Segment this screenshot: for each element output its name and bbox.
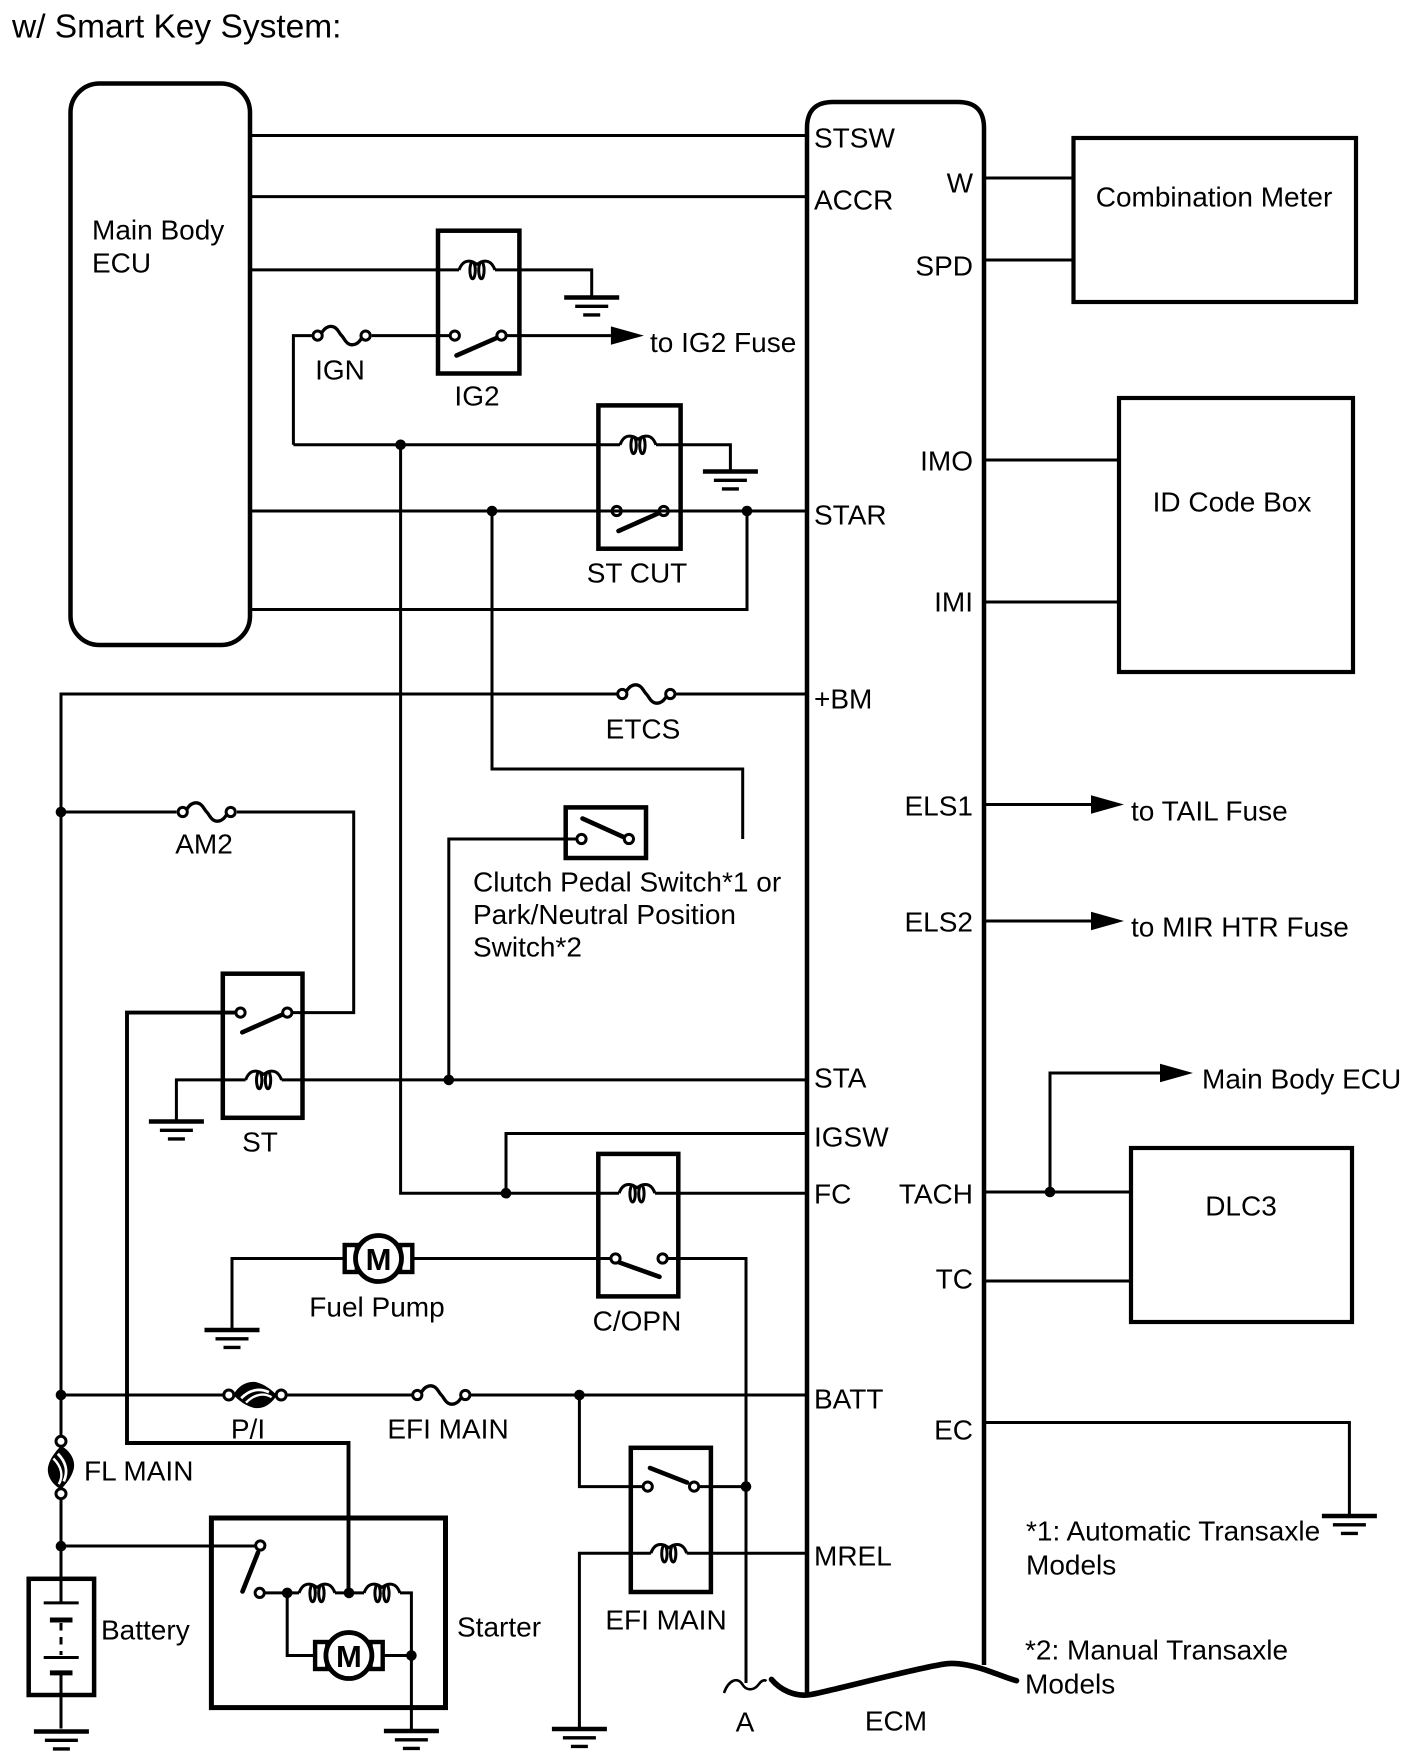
wire C/OPN switch to EFI MAIN switch [667, 1259, 746, 1487]
ID Code Box [1119, 398, 1353, 672]
svg-text:ID Code Box: ID Code Box [1153, 487, 1312, 518]
arrow to Main Body ECU [1160, 1064, 1401, 1095]
ground ST [149, 1122, 204, 1139]
svg-text:W: W [947, 168, 974, 199]
svg-text:Main Body: Main Body [92, 215, 224, 246]
svg-text:to MIR HTR Fuse: to MIR HTR Fuse [1131, 912, 1349, 943]
wire starter coils [264, 1593, 411, 1656]
junction FC [501, 1188, 512, 1199]
svg-text:Battery: Battery [101, 1615, 190, 1646]
wire IG2 coil feed [250, 270, 592, 297]
svg-text:DLC3: DLC3 [1205, 1191, 1277, 1222]
wire clutch switch upper run [492, 511, 743, 839]
junction STAR left [487, 506, 498, 517]
wire FC [401, 445, 807, 1193]
wire starter to ground [410, 1656, 413, 1730]
svg-text:IMO: IMO [920, 446, 973, 477]
wire TACH branch up [1050, 1073, 1160, 1192]
wire W [984, 177, 1074, 180]
svg-text:AM2: AM2 [175, 829, 233, 860]
Combination Meter box [1074, 138, 1357, 302]
wire battery top [60, 1499, 63, 1603]
wire STSW [250, 134, 807, 137]
svg-text:STA: STA [814, 1063, 867, 1094]
wire fuel pump [412, 1257, 678, 1260]
svg-text:STSW: STSW [814, 123, 895, 154]
svg-text:Main Body ECU: Main Body ECU [1202, 1064, 1401, 1095]
wire clutch switch left to STA [449, 839, 577, 1080]
svg-text:ELS2: ELS2 [905, 907, 974, 938]
break squiggle A [724, 1680, 767, 1693]
wire to connector A [745, 1487, 748, 1683]
relay IG2 [438, 231, 519, 374]
relay EFI MAIN [631, 1448, 711, 1592]
motor starter [315, 1633, 383, 1679]
wire ELS2 [984, 920, 1092, 923]
svg-text:ELS1: ELS1 [905, 791, 974, 822]
DLC3 box [1131, 1148, 1352, 1322]
wire ST switch left [127, 1013, 349, 1593]
svg-text:FC: FC [814, 1179, 851, 1210]
wire EFI MAIN relay switch feed [579, 1395, 643, 1487]
ground IG2 [564, 298, 619, 315]
ground EC [1322, 1516, 1377, 1533]
arrow to MIR HTR Fuse [1091, 912, 1349, 943]
svg-text:IGSW: IGSW [814, 1122, 889, 1153]
ground ST CUT [703, 472, 758, 489]
wire EC [984, 1423, 1349, 1515]
switch Clutch Pedal / Park Neutral [566, 807, 646, 858]
ground battery [34, 1732, 89, 1749]
wire SPD [984, 259, 1074, 262]
junction starter coil mid [344, 1588, 355, 1599]
svg-text:ECM: ECM [865, 1706, 927, 1737]
svg-text:FL MAIN: FL MAIN [84, 1456, 193, 1487]
junction BATT right [574, 1390, 585, 1401]
svg-text:*2: Manual Transaxle: *2: Manual Transaxle [1025, 1635, 1288, 1666]
svg-text:ST CUT: ST CUT [587, 558, 688, 589]
svg-text:Combination Meter: Combination Meter [1096, 182, 1333, 213]
note automatic transaxle [1026, 1516, 1320, 1581]
Main Body ECU box [71, 84, 251, 646]
wire MREL [687, 1552, 807, 1555]
junction STAR right [742, 506, 753, 517]
fuse AM2 [178, 803, 235, 821]
motor fuel pump [345, 1236, 413, 1282]
fuse IGN [313, 326, 370, 344]
ground starter [384, 1731, 439, 1748]
svg-text:Starter: Starter [457, 1612, 541, 1643]
wire BATT [61, 1394, 807, 1397]
svg-text:EC: EC [934, 1415, 973, 1446]
svg-text:ETCS: ETCS [606, 714, 681, 745]
relay ST CUT [598, 405, 680, 548]
wire +BM [61, 694, 807, 1437]
svg-text:EFI MAIN: EFI MAIN [605, 1605, 726, 1636]
fuse EFI MAIN [413, 1386, 470, 1404]
fuse FL MAIN [48, 1436, 74, 1498]
wire ECU lower to STAR [250, 511, 747, 610]
wire IGSW [506, 1134, 807, 1194]
wire ACCR [250, 195, 807, 198]
starter box [211, 1518, 445, 1708]
svg-text:IMI: IMI [934, 587, 973, 618]
svg-text:Fuel Pump: Fuel Pump [309, 1292, 444, 1323]
fuse P/I [224, 1382, 286, 1408]
junction battery starter [56, 1541, 67, 1552]
wire TACH [984, 1191, 1131, 1194]
starter switch [243, 1541, 265, 1598]
svg-text:+BM: +BM [814, 684, 872, 715]
arrow to IG2 Fuse [611, 326, 796, 358]
junction BATT left [56, 1390, 67, 1401]
svg-text:IGN: IGN [315, 355, 365, 386]
fuse ETCS [618, 685, 675, 703]
wire IMO [984, 459, 1119, 462]
wire starter motor left [287, 1593, 344, 1656]
svg-text:Park/Neutral Position: Park/Neutral Position [473, 899, 736, 930]
wire EFI MAIN switch right [699, 1485, 746, 1488]
battery BT1 [29, 1579, 94, 1729]
wire ST coil to ground [176, 1080, 245, 1120]
svg-text:TACH: TACH [899, 1179, 973, 1210]
wire IGN branch [293, 336, 611, 445]
svg-text:*1: Automatic Transaxle: *1: Automatic Transaxle [1026, 1516, 1320, 1547]
wire AM2 [61, 812, 354, 1013]
svg-text:BATT: BATT [814, 1384, 883, 1415]
wire ST CUT coil feed [293, 445, 730, 470]
junction starter motor right [406, 1650, 417, 1661]
svg-text:to IG2 Fuse: to IG2 Fuse [650, 327, 796, 358]
starter coil 1 [299, 1584, 335, 1602]
arrow to TAIL Fuse [1091, 795, 1288, 826]
wire fuel pump left to ground [232, 1259, 345, 1329]
junction AM2 [56, 807, 67, 818]
svg-text:w/ Smart Key System:: w/ Smart Key System: [11, 9, 342, 46]
wire ELS1 [984, 803, 1092, 806]
relay ST [223, 974, 303, 1118]
svg-text:Models: Models [1025, 1669, 1115, 1700]
svg-text:STAR: STAR [814, 500, 887, 531]
ground EFI MAIN [552, 1729, 607, 1746]
starter coil 2 [364, 1584, 400, 1602]
relay C/OPN [598, 1154, 678, 1297]
note manual transaxle [1025, 1635, 1288, 1700]
svg-text:ACCR: ACCR [814, 185, 893, 216]
wire STA [282, 1078, 807, 1081]
svg-text:A: A [736, 1707, 755, 1738]
svg-text:EFI MAIN: EFI MAIN [387, 1414, 508, 1445]
junction starter coil left [282, 1588, 293, 1599]
svg-text:ST: ST [242, 1127, 278, 1158]
wire TC [984, 1280, 1131, 1283]
svg-text:Clutch Pedal Switch*1 or: Clutch Pedal Switch*1 or [473, 867, 781, 898]
svg-text:Models: Models [1026, 1550, 1116, 1581]
svg-text:SPD: SPD [915, 251, 973, 282]
wire STAR [250, 510, 807, 513]
clutch switch label [473, 867, 781, 963]
svg-text:to TAIL Fuse: to TAIL Fuse [1131, 796, 1288, 827]
wire battery to starter switch [61, 1545, 256, 1548]
svg-text:P/I: P/I [231, 1414, 265, 1445]
wire IMI [984, 601, 1119, 604]
svg-text:ECU: ECU [92, 248, 151, 279]
svg-text:Switch*2: Switch*2 [473, 932, 582, 963]
svg-text:MREL: MREL [814, 1541, 892, 1572]
ECM box U1 [772, 102, 1017, 1695]
svg-text:C/OPN: C/OPN [593, 1306, 682, 1337]
junction STA [444, 1075, 455, 1086]
ground fuel pump [205, 1330, 260, 1347]
junction on ST CUT coil wire [395, 440, 406, 451]
svg-text:IG2: IG2 [454, 381, 499, 412]
junction TACH [1045, 1187, 1056, 1198]
wire EFI MAIN coil left to ground [579, 1553, 651, 1727]
svg-text:TC: TC [936, 1264, 973, 1295]
junction EFI MAIN A [741, 1481, 752, 1492]
